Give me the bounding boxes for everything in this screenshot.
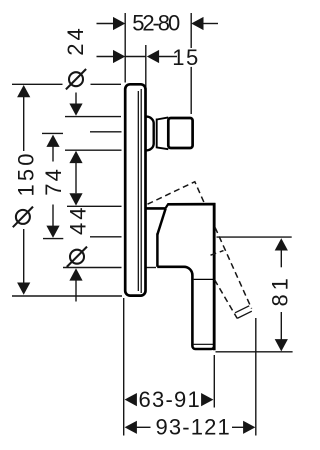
arrowhead 74 top	[46, 135, 59, 147]
dimension line Ø24/Ø44, shared outside tail	[75, 163, 77, 194]
dimension line 93-121, right tail	[232, 426, 244, 428]
svg-text:93-121: 93-121	[156, 414, 230, 439]
dimension line Ø150, upper segment	[23, 97, 25, 151]
handle body bottom and lever outline	[157, 205, 214, 349]
arrowhead Ø44 bottom	[69, 268, 82, 280]
arrowhead 63-91 left	[125, 393, 137, 406]
dimension line 15, left tail	[97, 56, 114, 58]
extension line, handle axis y=236.8 (right part)	[90, 236, 122, 238]
dashed swung lever end cap	[237, 311, 252, 318]
arrowhead 81 top	[275, 238, 288, 250]
dimension line 15, right tail to label	[159, 56, 177, 58]
extension line, spout axis tick at dim 74	[42, 132, 63, 134]
dimension line 81, upper segment	[280, 250, 282, 267]
dimension line 81, lower segment	[280, 312, 282, 340]
arrowhead 93-121 left	[125, 421, 137, 434]
dimension line Ø44, lower outside tail	[75, 281, 77, 302]
arrowhead 52-80 right	[191, 17, 203, 30]
lever front edge	[213, 203, 216, 350]
arrowhead Ø150 bottom	[17, 283, 30, 295]
arrowhead 63-91 right	[201, 393, 213, 406]
arrowhead Ø24 bottom	[69, 151, 82, 163]
label Ø44 diameter symbol	[67, 247, 87, 267]
spout connector end block	[168, 118, 192, 148]
dashed swung lever back edge	[215, 280, 238, 319]
svg-text:24: 24	[63, 28, 88, 56]
handle body collar edge	[147, 207, 166, 210]
dashed swung lever parting line stub	[211, 251, 224, 256]
arrowhead 93-121 right	[243, 421, 255, 434]
extension line, spout bottom y=150.2	[65, 149, 122, 151]
svg-text:74: 74	[41, 169, 66, 196]
dimension line Ø24, tail from label	[75, 93, 77, 105]
extension line, escutcheon top y=84.3 (left part)	[12, 83, 63, 85]
dashed swung lever front edge	[215, 228, 252, 309]
arrowhead 15 right	[147, 50, 159, 63]
extension line, wall plane (top, x=125.2)	[124, 13, 126, 83]
escutcheon inner contour line 2	[140, 89, 142, 293]
handle body left edge	[156, 234, 159, 267]
lever parting line	[194, 278, 213, 280]
dimension line 74, upper segment	[52, 147, 54, 162]
svg-text:44: 44	[65, 208, 90, 236]
arrowhead 15 left	[113, 50, 125, 63]
extension line, handle axis tick at dim 74	[43, 238, 63, 240]
dimension line 15, span	[125, 56, 146, 58]
svg-text:63-91: 63-91	[139, 387, 200, 412]
dimension line 52-80, left tail	[97, 23, 114, 25]
svg-text:52-80: 52-80	[132, 11, 180, 36]
escutcheon inner contour line 1	[137, 91, 139, 291]
lever bottom inner line	[194, 343, 213, 345]
svg-text:1: 1	[172, 45, 184, 70]
extension line, swung lever front (bottom, x=255.8)	[255, 318, 257, 436]
dimension line Ø150, lower segment	[23, 229, 25, 283]
spout connector cone	[157, 117, 169, 149]
extension line, lever bottom level y=351.8 (right)	[216, 351, 293, 353]
arrowhead Ø150 top	[17, 85, 30, 97]
extension line, spout axis y=131.8 (right part)	[90, 131, 122, 133]
extension line, handle bottom y=267.5 (behind escutcheon)	[147, 267, 157, 269]
handle body top step	[165, 204, 168, 208]
extension line, lever front (bottom, x=214.3)	[213, 355, 215, 408]
handle body left slant edge	[157, 209, 165, 235]
dashed swung lever end cap inner line	[235, 306, 249, 313]
svg-text:5: 5	[186, 45, 198, 70]
label Ø24 diameter symbol	[66, 69, 86, 89]
extension line, escutcheon top y=84.3 (right part)	[91, 83, 122, 85]
svg-text:150: 150	[13, 154, 38, 197]
escutcheon wall plate outline	[125, 84, 145, 295]
extension line, handle bottom y=267.5 (left part)	[63, 267, 122, 269]
handle body top edge	[167, 203, 215, 206]
extension line, escutcheon bottom y=296	[12, 295, 122, 297]
arrowhead Ø44 top	[69, 193, 82, 205]
label Ø150 diameter symbol	[13, 207, 33, 228]
extension line, wall plane (bottom, x=123.7)	[123, 298, 125, 436]
arrowhead 81 bottom	[275, 339, 288, 351]
extension line, spout face (top, x=191.2, broken by text 15)	[190, 13, 192, 48]
dashed swung lever top edge	[148, 182, 205, 205]
arrowhead Ø24 top	[69, 104, 82, 116]
spout connector bulge	[146, 117, 153, 151]
extension line, escutcheon front face (x=145.8)	[145, 45, 147, 96]
extension line, handle pivot level y=237.1 (right)	[217, 236, 292, 238]
svg-text:81: 81	[268, 278, 293, 306]
arrowhead 52-80 left	[113, 17, 125, 30]
dimension line 93-121, left tail	[137, 426, 151, 428]
extension line, handle top y=206.3	[67, 205, 122, 207]
dimension line 74, lower segment	[52, 205, 54, 227]
extension line, spout top y=116.6	[65, 116, 121, 118]
dimension line 52-80, right tail	[203, 23, 218, 25]
arrowhead 74 bottom	[46, 226, 59, 238]
